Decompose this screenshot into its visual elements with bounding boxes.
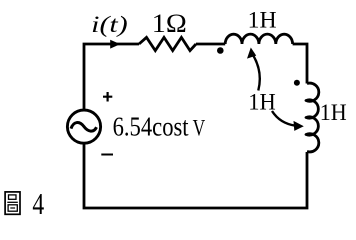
polarity dot of L1	[217, 47, 224, 54]
mutual coupling arrow from M label up to L1	[253, 55, 260, 91]
polarity dot of L2	[294, 80, 300, 86]
sine symbol inside source VS	[71, 122, 97, 131]
svg-text:i(t): i(t)	[91, 12, 128, 37]
wire: top-left segment and left vertical (source top feed)	[84, 44, 139, 111]
polarity plus sign of source	[103, 92, 112, 102]
inductor L1 (top, 1H) coil	[225, 34, 292, 44]
inductor L2 (right, 1H) coil	[306, 83, 319, 152]
wire: right vertical, bottom wire, left vertical up to source	[84, 144, 307, 208]
mutual coupling arrow from M label down-right to L2	[272, 111, 296, 126]
current arrow head for i(t) on top wire	[110, 40, 120, 49]
figure caption glyph "tu" (Chinese: figure) drawn as strokes	[5, 192, 20, 214]
svg-text:6.54cost: 6.54cost	[113, 112, 189, 142]
svg-text:4: 4	[32, 186, 44, 221]
svg-text:1H: 1H	[248, 8, 277, 33]
svg-text:1H: 1H	[320, 100, 347, 125]
resistor R1 (1 ohm) zigzag	[139, 37, 196, 50]
svg-text:1Ω: 1Ω	[152, 9, 187, 38]
svg-text:V: V	[193, 116, 206, 141]
polarity minus sign of source	[101, 154, 113, 156]
AC voltage source VS circle	[67, 110, 100, 143]
wire: top-right corner down to L2	[293, 44, 307, 84]
wire: resistor to inductor	[196, 43, 225, 46]
svg-text:1H: 1H	[248, 90, 275, 115]
